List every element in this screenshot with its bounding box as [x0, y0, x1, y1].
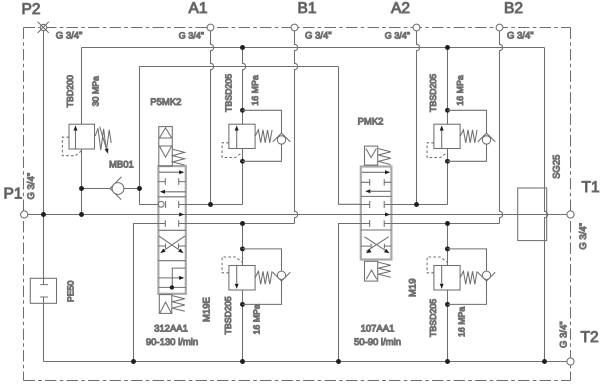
svg-text:P2: P2	[22, 1, 41, 18]
junction P2 column/P1 line	[41, 212, 46, 217]
svg-text:107AA1: 107AA1	[361, 324, 395, 335]
junction check2a top	[445, 108, 450, 113]
valve P5MK2 body outline	[158, 166, 185, 294]
wire TBD200 riser from L1	[81, 48, 83, 215]
wire relief riser1 from relief valve down to A1 line	[242, 149, 244, 205]
port T2	[567, 358, 574, 365]
wire MB01 line left segment	[82, 188, 111, 190]
junction check2b bottom	[445, 302, 450, 307]
svg-text:G 3/4": G 3/4"	[385, 31, 410, 41]
svg-text:SG25: SG25	[552, 155, 563, 179]
junction check1b top	[240, 246, 245, 251]
directional valve P5MK2 section 1	[158, 127, 186, 314]
valve PMK2 body outline	[361, 167, 392, 260]
junction valve1 feed/MB01 line	[137, 186, 142, 191]
svg-text:30 MPa: 30 MPa	[91, 76, 101, 106]
wire relief riser2 from relief valve down to A2 line	[447, 149, 449, 205]
svg-text:M19E: M19E	[201, 297, 212, 322]
svg-text:312AA1: 312AA1	[154, 324, 188, 335]
svg-text:T2: T2	[581, 329, 599, 346]
svg-text:90-130 l/min: 90-130 l/min	[146, 337, 198, 348]
relief valve TBSD205 A1 side with anti-cavitation check	[222, 110, 290, 161]
junction L1/relief riser2	[445, 45, 450, 50]
check valve MB01	[110, 177, 124, 200]
svg-text:G 3/4": G 3/4"	[507, 31, 534, 42]
junction check1a top	[240, 108, 245, 113]
junction check1b bottom	[240, 302, 245, 307]
junction A2 line	[414, 202, 419, 207]
port T1	[567, 211, 574, 218]
wire valve2 B-left drop to tank bus	[339, 224, 361, 362]
wire P2 column through P1 line down to tank bus	[43, 31, 45, 362]
junction L1/relief riser1	[240, 45, 245, 50]
svg-text:16 MPa: 16 MPa	[250, 75, 260, 105]
svg-text:A1: A1	[189, 0, 208, 17]
manifold boundary right edge (dash-dot)	[570, 28, 572, 381]
svg-text:TBSD205: TBSD205	[428, 74, 438, 112]
wire P1 to T1 neutral line	[28, 214, 567, 216]
relief valve TBSD205 B1 side with anti-cavitation check	[222, 249, 290, 305]
junction A1 line	[208, 202, 213, 207]
junction B2 bus/relief riser2	[445, 221, 450, 226]
junction TBD200 drain/MB01 line	[79, 186, 84, 191]
wire carryover line L2	[140, 66, 339, 68]
wire A1 drop line with hops	[211, 31, 214, 205]
wire relief riser2 lower	[447, 224, 449, 362]
port P2 plugged (circle with X)	[38, 22, 49, 33]
junction tank bus/relief riser1	[240, 359, 245, 364]
manifold boundary top edge (dash-dot)	[24, 27, 571, 29]
svg-text:P5MK2: P5MK2	[150, 97, 181, 108]
junction tank bus/L1 drop	[542, 359, 547, 364]
wire B1 drop line with hops joining B bus	[295, 31, 298, 224]
svg-text:G 3/4": G 3/4"	[56, 30, 83, 41]
svg-text:TBSD205: TBSD205	[428, 299, 438, 337]
junction check2b top	[445, 246, 450, 251]
svg-text:PMK2: PMK2	[358, 117, 384, 128]
relief valve TBSD205 B2 side with anti-cavitation check	[427, 249, 495, 305]
wire A1 work line valve to relief riser	[186, 204, 243, 206]
wire A2 drop line with hop	[417, 31, 420, 205]
junction B1 bus/relief riser1	[240, 221, 245, 226]
svg-text:T1: T1	[582, 179, 600, 196]
svg-text:G 3/4": G 3/4"	[578, 223, 589, 250]
port P1	[21, 211, 28, 218]
manifold boundary bottom edge (dash-dot)	[24, 380, 571, 382]
svg-text:PE50: PE50	[65, 280, 75, 302]
wire relief riser2 upper	[447, 48, 449, 125]
svg-text:16 MPa: 16 MPa	[251, 304, 261, 334]
plug/test point PE50	[30, 278, 56, 303]
svg-text:A2: A2	[391, 0, 410, 17]
junction tank bus/valve2 drop	[336, 359, 341, 364]
junction check2a bottom	[445, 159, 450, 164]
wire B1 bus segment valve1 to B1 drop	[186, 223, 295, 225]
wire relief riser1 upper (L1 to relief valve) with hop over L2	[243, 48, 246, 125]
wire L2 drop to valve2 inlet	[339, 67, 361, 205]
svg-text:G 3/4": G 3/4"	[179, 31, 204, 41]
wire bottom tank bus to T2	[44, 361, 567, 363]
directional valve PMK2 section 2	[361, 146, 392, 281]
svg-text:B1: B1	[298, 0, 317, 17]
port B2	[496, 24, 503, 31]
port A2	[413, 24, 420, 31]
svg-text:TBD200: TBD200	[65, 75, 75, 107]
svg-text:TBSD205: TBSD205	[223, 296, 233, 334]
junction check1a bottom	[240, 159, 245, 164]
wire MB01 line right segment	[124, 188, 140, 190]
svg-text:16 MPa: 16 MPa	[455, 75, 465, 105]
svg-text:G 3/4": G 3/4"	[305, 31, 332, 42]
port B1	[291, 24, 298, 31]
relief valve TBD200 30 MPa	[62, 124, 111, 156]
port A1	[207, 24, 214, 31]
wire valve1 left feed from L2 down to inlet	[140, 67, 159, 205]
wire valve1 B-left drop to tank bus	[134, 224, 159, 362]
wire L1 right drop to tank bus with hop over P line	[545, 48, 548, 362]
svg-text:50-90 l/min: 50-90 l/min	[354, 337, 401, 348]
junction tank bus/valve1 B-left	[131, 359, 136, 364]
svg-text:M19: M19	[407, 279, 418, 297]
svg-text:TBSD205: TBSD205	[223, 74, 233, 112]
manifold boundary left edge (dash-dot)	[23, 28, 25, 381]
junction tank bus/relief riser2	[445, 359, 450, 364]
wire B2 drop line with hops	[500, 31, 503, 224]
svg-text:16 MPa: 16 MPa	[456, 307, 466, 337]
svg-text:B2: B2	[504, 0, 523, 17]
svg-text:G 3/4": G 3/4"	[26, 173, 37, 200]
wire relief riser1 lower (B bus to bottom relief to tank bus)	[242, 224, 244, 362]
wire tank header L1	[82, 47, 545, 49]
relief valve TBSD205 A2 side with anti-cavitation check	[427, 110, 495, 161]
flow component SG25 body	[518, 188, 547, 241]
svg-text:P1: P1	[4, 186, 23, 203]
svg-text:MB01: MB01	[109, 160, 134, 171]
wire A2 work line valve2 to relief riser2	[391, 204, 447, 206]
svg-text:G 3/4": G 3/4"	[558, 321, 569, 348]
junction TBD200 drain/P1 line	[79, 212, 84, 217]
wire B2 bus segment valve2 to B2 drop	[391, 223, 499, 225]
